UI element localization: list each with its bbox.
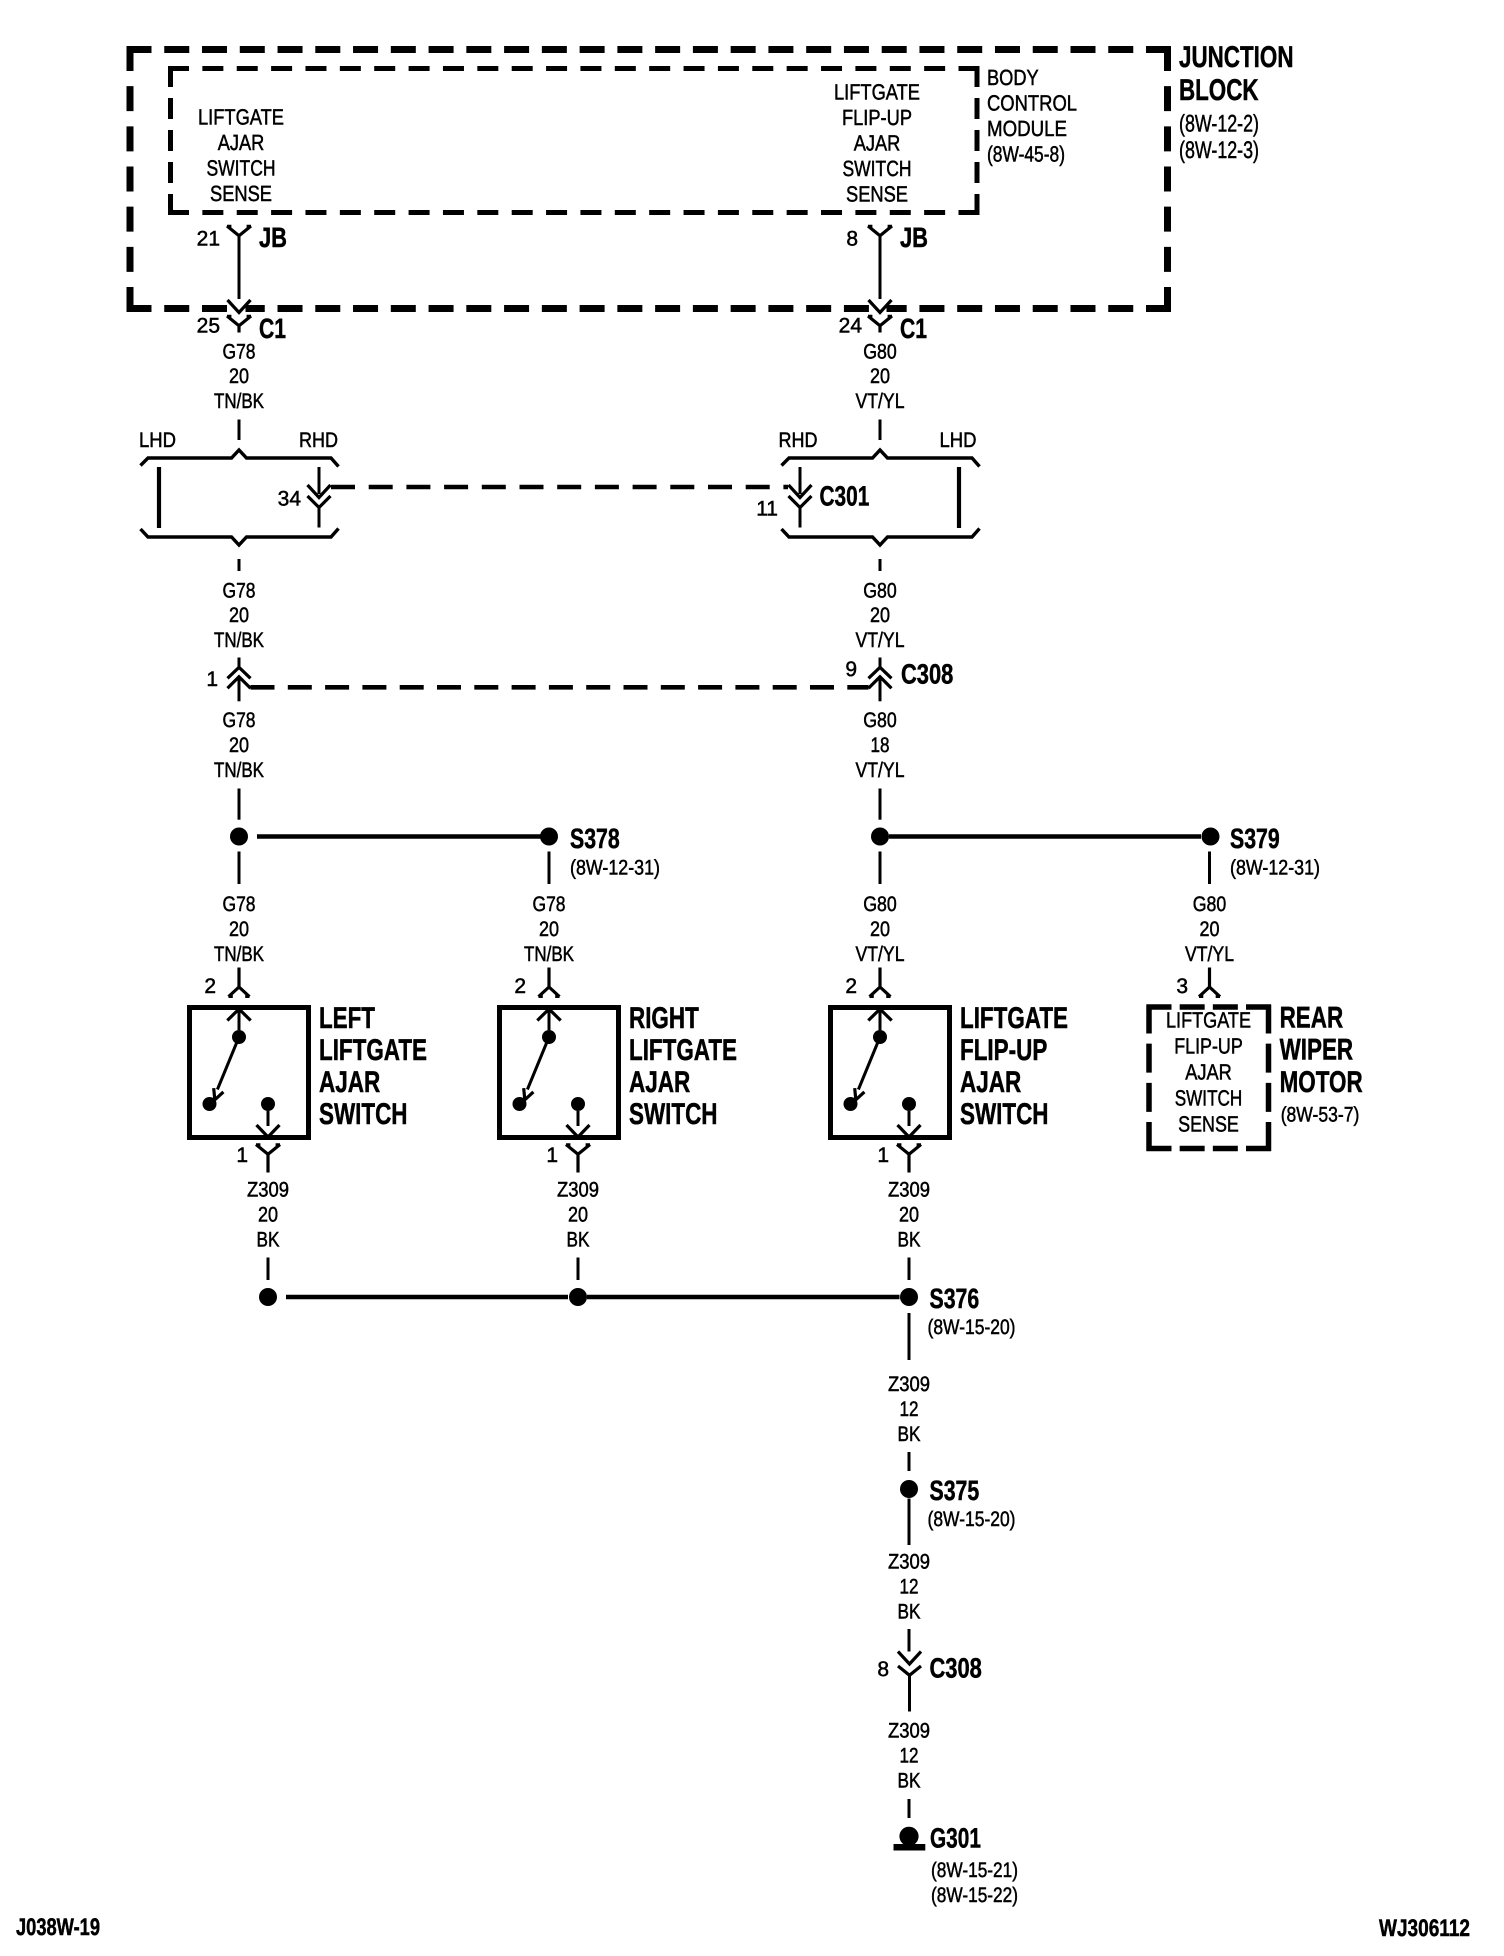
ground G301 xyxy=(899,1827,918,1846)
connector C308 pin 9 xyxy=(879,658,882,668)
svg-text:20: 20 xyxy=(899,1204,919,1227)
svg-text:LIFTGATE: LIFTGATE xyxy=(834,80,920,105)
svg-text:G80: G80 xyxy=(863,341,897,364)
svg-text:SENSE: SENSE xyxy=(846,182,908,207)
svg-text:G78: G78 xyxy=(223,709,256,732)
switch contact (output) xyxy=(902,1097,916,1111)
svg-text:FLIP-UP: FLIP-UP xyxy=(1174,1034,1243,1059)
svg-text:S375: S375 xyxy=(930,1475,980,1506)
svg-text:JB: JB xyxy=(900,222,928,253)
connector pin 2 xyxy=(229,968,250,997)
svg-text:20: 20 xyxy=(870,604,890,627)
svg-text:FLIP-UP: FLIP-UP xyxy=(842,105,912,130)
connector C1 pin 25 xyxy=(227,316,251,333)
switch arm xyxy=(858,1037,880,1090)
body control module (inner dashed box) xyxy=(168,66,980,71)
svg-text:(8W-12-2): (8W-12-2) xyxy=(1179,111,1259,138)
svg-text:1: 1 xyxy=(206,668,218,691)
svg-text:SENSE: SENSE xyxy=(1178,1111,1239,1136)
svg-text:(8W-15-20): (8W-15-20) xyxy=(928,1316,1016,1339)
switch pivot xyxy=(873,1030,887,1044)
svg-text:2: 2 xyxy=(845,975,857,998)
svg-text:Z309: Z309 xyxy=(888,1720,930,1743)
svg-text:G78: G78 xyxy=(223,580,256,603)
svg-text:1: 1 xyxy=(546,1144,558,1167)
wire stub below splice xyxy=(238,852,241,885)
svg-text:TN/BK: TN/BK xyxy=(214,390,264,413)
svg-text:Z309: Z309 xyxy=(888,1179,930,1202)
wire stub below splice xyxy=(548,852,551,885)
splice S375 xyxy=(900,1480,918,1498)
switch contact (output) xyxy=(261,1097,275,1111)
wire (LHD branch) xyxy=(957,467,961,528)
svg-text:S376: S376 xyxy=(930,1283,980,1314)
svg-text:Z309: Z309 xyxy=(888,1551,930,1574)
svg-text:FLIP-UP: FLIP-UP xyxy=(960,1034,1047,1067)
dashed link to C301 pin 11 xyxy=(331,485,788,490)
svg-text:SWITCH: SWITCH xyxy=(207,156,276,181)
splice S378 dot xyxy=(540,828,558,846)
svg-text:C1: C1 xyxy=(259,313,286,344)
svg-text:G78: G78 xyxy=(223,341,256,364)
svg-text:SWITCH: SWITCH xyxy=(1175,1085,1243,1110)
svg-text:(8W-45-8): (8W-45-8) xyxy=(987,142,1065,167)
svg-text:S378: S378 xyxy=(570,823,620,854)
svg-text:AJAR: AJAR xyxy=(319,1066,381,1099)
svg-text:BK: BK xyxy=(567,1229,590,1252)
svg-text:C301: C301 xyxy=(820,481,870,512)
svg-text:BK: BK xyxy=(257,1229,280,1252)
svg-text:(8W-53-7): (8W-53-7) xyxy=(1281,1104,1360,1127)
svg-text:12: 12 xyxy=(900,1745,919,1768)
svg-text:VT/YL: VT/YL xyxy=(856,759,905,782)
splice S378 junction dot (left) xyxy=(230,828,248,846)
svg-text:LIFTGATE: LIFTGATE xyxy=(1166,1008,1251,1033)
svg-text:LIFTGATE: LIFTGATE xyxy=(629,1034,737,1067)
svg-text:RIGHT: RIGHT xyxy=(629,1002,699,1035)
svg-text:20: 20 xyxy=(229,918,249,941)
svg-text:G78: G78 xyxy=(223,893,256,916)
svg-text:LIFTGATE: LIFTGATE xyxy=(198,105,284,130)
svg-text:2: 2 xyxy=(514,975,526,998)
svg-text:20: 20 xyxy=(229,604,249,627)
wire stub xyxy=(577,1258,580,1281)
svg-text:3: 3 xyxy=(1176,975,1188,998)
LHD/RHD routing brace (left, G78 circuit) xyxy=(141,450,339,467)
svg-text:20: 20 xyxy=(258,1204,278,1227)
connector pin 2 xyxy=(539,968,560,997)
splice S378 wire xyxy=(257,834,541,839)
svg-text:20: 20 xyxy=(1200,918,1220,941)
connector JB pin 21 xyxy=(227,226,251,236)
wire stub xyxy=(908,1452,911,1471)
svg-text:12: 12 xyxy=(900,1398,919,1421)
svg-text:AJAR: AJAR xyxy=(218,130,265,155)
svg-text:Z309: Z309 xyxy=(557,1179,599,1202)
svg-text:SWITCH: SWITCH xyxy=(960,1098,1049,1131)
svg-text:LHD: LHD xyxy=(139,429,176,452)
rear wiper motor (dashed box) xyxy=(1147,1004,1272,1010)
svg-text:LIFTGATE: LIFTGATE xyxy=(960,1002,1068,1035)
dash gaps at wire crossings xyxy=(233,305,246,315)
connector pin 1 xyxy=(256,1145,280,1173)
svg-text:G78: G78 xyxy=(533,893,566,916)
svg-text:(8W-15-21): (8W-15-21) xyxy=(931,1859,1018,1882)
svg-text:MOTOR: MOTOR xyxy=(1280,1066,1363,1099)
svg-text:1: 1 xyxy=(877,1144,889,1167)
splice S376 junction dot xyxy=(900,1288,918,1306)
switch arm xyxy=(527,1037,549,1090)
svg-text:8: 8 xyxy=(877,1658,889,1681)
svg-text:BK: BK xyxy=(898,1770,921,1793)
dashed link to C308 pin 9 xyxy=(251,685,869,690)
svg-text:BK: BK xyxy=(898,1229,921,1252)
svg-text:8: 8 xyxy=(846,228,858,251)
switch output terminal (arrow) xyxy=(267,1111,270,1126)
splice S376 wire xyxy=(587,1295,900,1300)
svg-text:(8W-12-3): (8W-12-3) xyxy=(1179,137,1259,164)
svg-text:RHD: RHD xyxy=(299,429,338,452)
switch contact (NC) xyxy=(203,1097,217,1111)
svg-text:C308: C308 xyxy=(930,1653,982,1684)
svg-text:21: 21 xyxy=(197,228,220,251)
svg-text:AJAR: AJAR xyxy=(960,1066,1022,1099)
splice S376 dot (left) xyxy=(259,1288,277,1306)
svg-text:TN/BK: TN/BK xyxy=(214,759,264,782)
switch contact (NC) xyxy=(844,1097,858,1111)
wire stub below S376 xyxy=(908,1313,911,1360)
svg-text:SWITCH: SWITCH xyxy=(629,1098,718,1131)
svg-text:(8W-15-22): (8W-15-22) xyxy=(931,1884,1018,1907)
splice S379 dot xyxy=(1202,828,1220,846)
wire stub xyxy=(908,1629,911,1652)
svg-text:AJAR: AJAR xyxy=(629,1066,691,1099)
wire JB pin 8 to C1 (inside junction block) xyxy=(879,236,882,299)
connector C308 pin 1 xyxy=(238,658,241,668)
svg-text:G80: G80 xyxy=(863,580,897,603)
svg-text:34: 34 xyxy=(278,488,302,511)
svg-text:24: 24 xyxy=(839,315,863,338)
svg-text:JB: JB xyxy=(259,222,287,253)
splice S376 wire xyxy=(286,1295,568,1300)
svg-text:G301: G301 xyxy=(930,1822,981,1853)
svg-text:1: 1 xyxy=(236,1144,248,1167)
svg-text:BLOCK: BLOCK xyxy=(1179,74,1259,107)
svg-text:VT/YL: VT/YL xyxy=(1185,943,1234,966)
wire stub into splice S378 xyxy=(238,789,241,820)
connector C301 pin 11 (RHD branch) xyxy=(799,467,802,494)
connector pin 1 xyxy=(566,1145,590,1173)
svg-text:2: 2 xyxy=(204,975,216,998)
wire stub xyxy=(908,1258,911,1281)
splice S379 wire xyxy=(889,834,1201,839)
svg-text:RHD: RHD xyxy=(779,429,818,452)
junction block (dashed outline) xyxy=(127,46,1172,53)
switch input terminal (arrow) xyxy=(227,1009,250,1021)
wire stub into splice S379 xyxy=(879,789,882,820)
switch pivot xyxy=(232,1030,246,1044)
svg-text:20: 20 xyxy=(229,365,249,388)
svg-text:JUNCTION: JUNCTION xyxy=(1179,41,1294,74)
wire stub below right brace xyxy=(879,559,882,571)
wire stub below splice xyxy=(1208,852,1211,885)
svg-text:J038W-19: J038W-19 xyxy=(16,1914,100,1941)
svg-text:BODY: BODY xyxy=(987,65,1039,90)
svg-text:AJAR: AJAR xyxy=(1185,1060,1232,1085)
svg-text:SWITCH: SWITCH xyxy=(843,156,912,181)
wire stub xyxy=(267,1258,270,1281)
svg-text:(8W-15-20): (8W-15-20) xyxy=(928,1508,1016,1531)
connector C308 pin 8 xyxy=(898,1652,921,1665)
svg-text:C308: C308 xyxy=(901,659,953,690)
svg-text:18: 18 xyxy=(871,734,890,757)
connector JB pin 8 xyxy=(868,226,892,236)
connector C301 pin 34 (RHD branch) xyxy=(318,467,321,494)
svg-text:9: 9 xyxy=(845,658,857,681)
svg-text:Z309: Z309 xyxy=(247,1179,289,1202)
wire stub below S375 xyxy=(908,1499,911,1546)
wire JB pin 21 to C1 (inside junction block) xyxy=(238,236,241,299)
svg-text:12: 12 xyxy=(900,1576,919,1599)
switch body xyxy=(831,1008,950,1138)
svg-text:VT/YL: VT/YL xyxy=(856,629,905,652)
switch pivot xyxy=(542,1030,556,1044)
svg-text:REAR: REAR xyxy=(1280,1002,1344,1035)
switch body xyxy=(500,1008,619,1138)
svg-text:VT/YL: VT/YL xyxy=(856,943,905,966)
svg-text:20: 20 xyxy=(870,365,890,388)
svg-text:SWITCH: SWITCH xyxy=(319,1098,408,1131)
svg-text:BK: BK xyxy=(898,1601,921,1624)
svg-text:25: 25 xyxy=(197,315,220,338)
LHD/RHD routing brace (right, G80 circuit) xyxy=(782,450,980,467)
wire stub xyxy=(908,1799,911,1818)
svg-text:SENSE: SENSE xyxy=(210,181,272,206)
svg-text:(8W-12-31): (8W-12-31) xyxy=(570,856,660,879)
svg-text:11: 11 xyxy=(756,498,778,521)
svg-text:Z309: Z309 xyxy=(888,1373,930,1396)
switch output terminal (arrow) xyxy=(577,1111,580,1126)
wire stub below left brace xyxy=(238,559,241,571)
svg-text:TN/BK: TN/BK xyxy=(214,943,264,966)
splice S376 dot (middle) xyxy=(569,1288,587,1306)
switch body xyxy=(190,1008,309,1138)
switch input terminal (arrow) xyxy=(868,1009,891,1021)
svg-text:20: 20 xyxy=(870,918,890,941)
svg-text:LEFT: LEFT xyxy=(319,1002,375,1035)
connector pin 3 (rear wiper motor) xyxy=(1199,968,1220,997)
svg-text:AJAR: AJAR xyxy=(854,131,901,156)
svg-text:(8W-12-31): (8W-12-31) xyxy=(1230,856,1320,879)
svg-text:BK: BK xyxy=(898,1423,921,1446)
connector pin 2 xyxy=(870,968,891,997)
svg-text:LHD: LHD xyxy=(940,429,977,452)
svg-text:S379: S379 xyxy=(1230,823,1280,854)
wire stub below splice xyxy=(879,852,882,885)
svg-text:20: 20 xyxy=(229,734,249,757)
svg-text:20: 20 xyxy=(539,918,559,941)
svg-text:TN/BK: TN/BK xyxy=(214,629,264,652)
wire stub xyxy=(879,420,882,441)
switch contact (NC) xyxy=(513,1097,527,1111)
wire (LHD branch) xyxy=(157,467,161,528)
svg-text:MODULE: MODULE xyxy=(987,116,1067,141)
switch input terminal (arrow) xyxy=(537,1009,560,1021)
svg-text:WJ306112: WJ306112 xyxy=(1379,1915,1470,1942)
connector pin 1 xyxy=(897,1145,921,1173)
splice S379 junction dot (left) xyxy=(871,828,889,846)
switch output terminal (arrow) xyxy=(908,1111,911,1126)
connector C1 pin 24 xyxy=(868,316,892,333)
svg-text:CONTROL: CONTROL xyxy=(987,91,1077,116)
svg-text:G80: G80 xyxy=(863,709,897,732)
wire stub xyxy=(238,420,241,441)
svg-text:TN/BK: TN/BK xyxy=(524,943,574,966)
switch arm xyxy=(217,1037,239,1090)
switch contact (output) xyxy=(571,1097,585,1111)
svg-text:LIFTGATE: LIFTGATE xyxy=(319,1034,427,1067)
svg-text:C1: C1 xyxy=(900,313,927,344)
svg-text:VT/YL: VT/YL xyxy=(856,390,905,413)
svg-text:G80: G80 xyxy=(863,893,897,916)
svg-text:WIPER: WIPER xyxy=(1280,1034,1354,1067)
svg-text:G80: G80 xyxy=(1193,893,1227,916)
svg-text:20: 20 xyxy=(568,1204,588,1227)
